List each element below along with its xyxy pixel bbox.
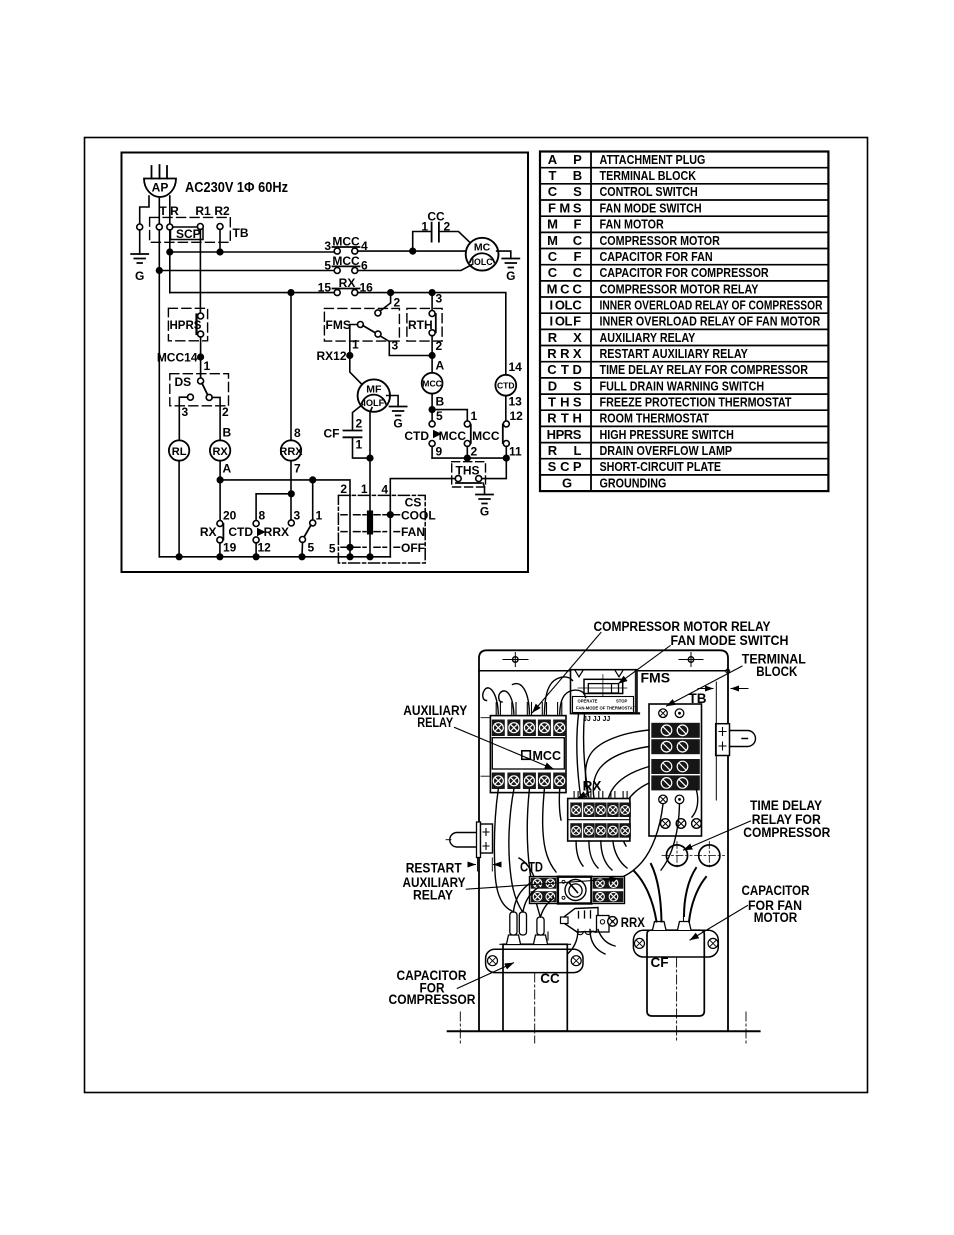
- legend row CONTROL SWITCH: [548, 184, 698, 199]
- legend row FAN MOTOR: [547, 217, 664, 232]
- wire RX to node A: [219, 461, 221, 480]
- fan mode switch FMS: [324, 293, 400, 353]
- svg-text:MF: MF: [366, 384, 382, 396]
- CC terminal posts: [507, 912, 549, 944]
- legend table: [540, 152, 828, 492]
- svg-text:TB: TB: [689, 691, 707, 706]
- svg-text:FMS: FMS: [641, 669, 671, 685]
- svg-text:G: G: [135, 269, 144, 283]
- svg-text:3: 3: [392, 339, 399, 353]
- wires below RRX: [565, 930, 615, 957]
- svg-text:ATTACHMENT PLUG: ATTACHMENT PLUG: [600, 152, 706, 167]
- room thermostat RTH: [407, 292, 443, 373]
- svg-text:13: 13: [509, 395, 523, 409]
- leader line fan mode switch: [619, 646, 671, 684]
- svg-text:G: G: [480, 505, 489, 519]
- time delay relay coil CTD: [495, 360, 523, 423]
- svg-text:MC: MC: [547, 233, 583, 248]
- svg-text:8: 8: [259, 509, 266, 523]
- legend row COMPRESSOR MOTOR: [547, 233, 720, 248]
- wire bottom bus: [159, 556, 390, 558]
- svg-text:2: 2: [436, 339, 443, 353]
- svg-text:3: 3: [182, 405, 189, 419]
- svg-text:COMPRESSOR MOTOR: COMPRESSOR MOTOR: [600, 233, 720, 248]
- leader line auxiliary relay: [455, 727, 554, 769]
- svg-text:RTH: RTH: [547, 411, 582, 426]
- svg-text:11: 11: [509, 445, 522, 459]
- svg-text:FULL DRAIN WARNING SWITCH: FULL DRAIN WARNING SWITCH: [600, 378, 765, 393]
- svg-text:FAN MODE SWITCH: FAN MODE SWITCH: [600, 200, 702, 215]
- legend row ATTACHMENT PLUG: [548, 152, 706, 167]
- svg-text:RELAY: RELAY: [417, 715, 453, 730]
- svg-text:COMPRESSOR: COMPRESSOR: [743, 825, 830, 840]
- svg-text:CC: CC: [548, 265, 583, 280]
- wire MCC6 to motor IOLC: [358, 265, 472, 271]
- svg-text:FAN-MODE OF THERMOSTAT: FAN-MODE OF THERMOSTAT: [576, 706, 635, 711]
- leader line restart auxiliary relay: [466, 879, 618, 889]
- svg-text:AP: AP: [548, 152, 582, 167]
- wire CS terminal 2 vertical: [349, 495, 351, 556]
- svg-text:MF: MF: [547, 217, 581, 232]
- label RESTART AUXILIARY RELAY: [403, 861, 466, 903]
- node R terminal: [167, 224, 173, 230]
- fan motor MF with inner overload IOLF: [358, 359, 445, 412]
- svg-text:TIME DELAY RELAY FOR COMPRESSO: TIME DELAY RELAY FOR COMPRESSOR: [600, 362, 809, 377]
- top right dimension marks: [698, 682, 748, 800]
- TB terminal rows: [651, 723, 700, 791]
- wire RX16 to CTD branch: [358, 293, 506, 375]
- svg-text:CF: CF: [651, 955, 669, 970]
- svg-text:MCC: MCC: [332, 235, 360, 249]
- leader line terminal block: [667, 666, 743, 706]
- svg-text:3: 3: [436, 292, 443, 306]
- wire R1 vertical down to HPRS: [199, 229, 201, 313]
- svg-text:CTD: CTD: [497, 381, 515, 391]
- legend row HIGH PRESSURE SWITCH: [547, 427, 734, 442]
- svg-text:MCC: MCC: [547, 281, 583, 296]
- auxiliary relay RX block: [568, 792, 631, 842]
- center marks dash-dot: [460, 958, 746, 1043]
- center line overlays: [535, 958, 677, 1030]
- svg-text:1: 1: [361, 482, 368, 496]
- label CAPACITOR FOR COMPRESSOR: [389, 968, 476, 1007]
- legend row FAN MODE SWITCH: [548, 200, 702, 215]
- svg-text:2: 2: [394, 296, 401, 310]
- wire bundle from TB to lower left: [585, 730, 697, 878]
- svg-text:FAN MODE SWITCH: FAN MODE SWITCH: [671, 633, 789, 648]
- svg-text:CC: CC: [427, 210, 445, 224]
- svg-text:G: G: [506, 269, 515, 283]
- contact RX 15-16: [318, 276, 374, 296]
- node R2 terminal: [217, 224, 223, 230]
- svg-text:R2: R2: [214, 204, 230, 218]
- svg-text:A: A: [436, 359, 445, 373]
- legend row ROOM THERMOSTAT: [547, 411, 709, 426]
- legend row AUXILIARY RELAY: [548, 330, 696, 345]
- wire plug ground lead: [140, 196, 149, 224]
- capacitor CF: [324, 405, 371, 459]
- svg-text:COMPRESSOR MOTOR RELAY: COMPRESSOR MOTOR RELAY: [594, 619, 771, 634]
- svg-text:RELAY: RELAY: [413, 888, 453, 903]
- high pressure switch HPRS: [168, 308, 207, 341]
- wire to MCC contact 5: [159, 270, 334, 272]
- node MCC14: [198, 354, 204, 360]
- svg-text:STOP: STOP: [616, 699, 628, 704]
- wire MCC4 to motor MC: [358, 250, 466, 252]
- svg-text:G: G: [393, 417, 402, 431]
- contact CTD 8-12: [228, 494, 291, 557]
- wire node B to contact MCC-1: [432, 410, 467, 422]
- auxiliary relay coil RX: [210, 440, 230, 460]
- svg-text:RTH: RTH: [408, 318, 433, 332]
- svg-text:5: 5: [329, 542, 336, 556]
- node R1 terminal: [197, 224, 203, 230]
- base line: [448, 1030, 760, 1032]
- wires from FMS unit down: [577, 714, 589, 798]
- label TIME DELAY RELAY FOR COMPRESSOR: [743, 798, 830, 840]
- svg-text:CS: CS: [548, 184, 582, 199]
- control box panel outline: [479, 650, 728, 1031]
- label TERMINAL BLOCK: [742, 652, 806, 679]
- legend row TIME DELAY RELAY FOR COMPRESSOR: [547, 362, 808, 377]
- svg-text:B: B: [436, 395, 445, 409]
- svg-text:INNER OVERLOAD RELAY OF COMPRE: INNER OVERLOAD RELAY OF COMPRESSOR: [600, 297, 823, 312]
- svg-text:5: 5: [324, 259, 331, 273]
- attachment plug AP: [144, 165, 176, 197]
- svg-text:MC: MC: [474, 242, 491, 254]
- svg-text:THS: THS: [548, 394, 582, 409]
- svg-text:OPERATE: OPERATE: [578, 699, 598, 704]
- wire node A horizontal: [220, 480, 350, 496]
- svg-text:1: 1: [316, 509, 323, 523]
- restart auxiliary relay coil RRX: [279, 293, 303, 523]
- wire HPRS to node MCC14: [200, 337, 202, 378]
- svg-text:TERMINAL BLOCK: TERMINAL BLOCK: [600, 168, 697, 183]
- cable connector on right edge: [716, 724, 756, 756]
- svg-text:CAPACITOR FOR FAN: CAPACITOR FOR FAN: [600, 249, 713, 264]
- svg-text:2: 2: [222, 405, 229, 419]
- svg-text:HIGH PRESSURE SWITCH: HIGH PRESSURE SWITCH: [600, 427, 734, 442]
- svg-text:COMPRESSOR MOTOR RELAY: COMPRESSOR MOTOR RELAY: [600, 281, 759, 296]
- svg-text:RX: RX: [200, 525, 217, 539]
- svg-text:BLOCK: BLOCK: [756, 664, 797, 679]
- terminal block TB: [649, 704, 702, 836]
- svg-text:G: G: [562, 475, 572, 490]
- wires below RX block: [576, 841, 627, 870]
- svg-text:HPRS: HPRS: [547, 427, 582, 442]
- svg-text:IOLF: IOLF: [363, 398, 384, 409]
- svg-text:ROOM THERMOSTAT: ROOM THERMOSTAT: [600, 411, 710, 426]
- contact CTD 5-9: [404, 409, 443, 459]
- wires above MCC block: [483, 677, 586, 714]
- ground G (left of TB): [131, 224, 148, 283]
- svg-text:AP: AP: [152, 181, 169, 195]
- ground G (fan motor): [387, 396, 407, 431]
- ground G (THS): [476, 483, 493, 519]
- svg-text:2: 2: [356, 417, 363, 431]
- svg-text:CF: CF: [548, 249, 582, 264]
- svg-text:1: 1: [356, 438, 363, 452]
- svg-text:2: 2: [444, 220, 451, 234]
- label AUXILIARY RELAY: [403, 703, 467, 730]
- legend row CAPACITOR FOR FAN: [548, 249, 713, 264]
- contact MCC 3-4: [324, 235, 368, 255]
- svg-text:9: 9: [436, 445, 443, 459]
- switch RRX 3-1-5: [264, 480, 323, 557]
- svg-text:CF: CF: [324, 427, 340, 441]
- svg-text:AC230V 1Φ 60Hz: AC230V 1Φ 60Hz: [185, 180, 288, 196]
- legend row COMPRESSOR MOTOR RELAY: [547, 281, 759, 296]
- legend row GROUNDING: [562, 475, 667, 490]
- leader line time delay relay: [684, 821, 751, 850]
- MCC terminal stems: [496, 703, 562, 716]
- wire R vertical down: [169, 230, 171, 293]
- contact MCC 12-11: [472, 421, 522, 459]
- svg-text:AUXILIARY RELAY: AUXILIARY RELAY: [600, 330, 696, 345]
- svg-text:T: T: [159, 204, 167, 218]
- svg-text:FMS: FMS: [548, 200, 582, 215]
- svg-text:RX: RX: [583, 779, 602, 794]
- svg-text:DS: DS: [548, 378, 582, 393]
- leader line RX: [578, 792, 591, 799]
- svg-text:MOTOR: MOTOR: [754, 910, 798, 925]
- wires above CF: [634, 864, 706, 922]
- svg-text:R1: R1: [195, 204, 211, 218]
- svg-text:CONTROL SWITCH: CONTROL SWITCH: [600, 184, 698, 199]
- panel screw left: [503, 653, 528, 667]
- svg-text:SCP: SCP: [176, 227, 201, 241]
- legend row DRAIN OVERFLOW LAMP: [548, 443, 733, 458]
- CF terminal posts: [653, 916, 692, 930]
- svg-text:JJ JJ JJ: JJ JJ JJ: [583, 716, 610, 723]
- svg-text:RRX: RRX: [547, 346, 582, 361]
- svg-text:RL: RL: [548, 443, 582, 458]
- left cable connector: [446, 718, 498, 871]
- leader line capacitor for compressor: [457, 963, 513, 989]
- svg-text:5: 5: [308, 541, 315, 555]
- MCC block top terminals: [492, 720, 566, 737]
- svg-text:CTD: CTD: [547, 362, 582, 377]
- svg-text:RX: RX: [339, 276, 356, 290]
- svg-text:12: 12: [510, 409, 524, 423]
- svg-text:COOL: COOL: [401, 508, 436, 522]
- wires from MCC block down to CC: [494, 789, 561, 916]
- legend row TERMINAL BLOCK: [549, 168, 697, 183]
- compressor motor relay coil MCC: [422, 373, 445, 421]
- svg-text:8: 8: [294, 426, 301, 440]
- freeze protection thermostat THS: [452, 458, 507, 487]
- svg-text:MCC: MCC: [439, 429, 467, 443]
- wires above CC: [513, 882, 554, 917]
- svg-text:1: 1: [471, 409, 478, 423]
- svg-text:RESTART: RESTART: [406, 861, 463, 876]
- full drain warning switch DS: [170, 374, 229, 419]
- svg-text:19: 19: [223, 541, 237, 555]
- svg-text:FMS: FMS: [326, 318, 351, 332]
- svg-text:3: 3: [324, 239, 331, 253]
- wire plug R lead: [169, 196, 171, 224]
- svg-text:FAN MOTOR: FAN MOTOR: [600, 217, 664, 232]
- svg-text:15: 15: [318, 281, 332, 295]
- svg-text:FREEZE PROTECTION THERMOSTAT: FREEZE PROTECTION THERMOSTAT: [600, 394, 792, 409]
- svg-text:TB: TB: [549, 168, 583, 183]
- capacitor CC body: [486, 944, 583, 1031]
- svg-text:MCC14: MCC14: [157, 351, 198, 365]
- legend row FREEZE PROTECTION THERMOSTAT: [548, 394, 792, 409]
- wire R2 vertical stub: [219, 229, 221, 252]
- svg-text:RESTART AUXILIARY RELAY: RESTART AUXILIARY RELAY: [600, 346, 749, 361]
- svg-text:CTD: CTD: [404, 429, 429, 443]
- control switch CS box: [329, 482, 425, 563]
- svg-text:GROUNDING: GROUNDING: [600, 475, 667, 490]
- svg-text:RX: RX: [548, 330, 582, 345]
- svg-text:RL: RL: [172, 446, 187, 458]
- wire FMS common to node RX12: [350, 325, 364, 387]
- wire to RX contact 15: [170, 292, 335, 294]
- ground G (motor MC): [497, 251, 520, 283]
- svg-text:2: 2: [471, 445, 478, 459]
- contact MCC 5-6: [324, 254, 368, 274]
- restart auxiliary relay RRX unit: [561, 908, 618, 935]
- legend row SHORT-CIRCUIT PLATE: [548, 459, 722, 474]
- wire to MCC contact 3: [170, 251, 335, 253]
- leader line compressor motor relay: [533, 633, 601, 713]
- svg-text:4: 4: [381, 483, 388, 497]
- svg-text:FAN: FAN: [401, 525, 425, 539]
- svg-text:INNER OVERLOAD RELAY OF FAN MO: INNER OVERLOAD RELAY OF FAN MOTOR: [600, 314, 821, 329]
- svg-text:IOLF: IOLF: [549, 314, 581, 329]
- fan mode switch unit FMS: [571, 670, 640, 723]
- legend row RESTART AUXILIARY RELAY: [547, 346, 748, 361]
- MCC nameplate label: [522, 749, 561, 763]
- legend row INNER OVERLOAD RELAY OF FAN MOTOR: [549, 314, 820, 329]
- wire FMS-3 to node 2: [380, 336, 432, 356]
- svg-text:RRX: RRX: [621, 915, 645, 930]
- svg-text:SHORT-CIRCUIT PLATE: SHORT-CIRCUIT PLATE: [600, 459, 722, 474]
- contact RX 20-19: [200, 480, 237, 557]
- svg-text:OFF: OFF: [401, 541, 425, 555]
- CS row COOL: [341, 508, 436, 522]
- svg-text:CTD: CTD: [520, 860, 543, 875]
- MCC block bottom terminals: [492, 773, 566, 790]
- label CAPACITOR FOR FAN MOTOR: [742, 883, 810, 925]
- legend row INNER OVERLOAD RELAY OF COMPRESSOR: [549, 297, 822, 312]
- node T terminal: [156, 224, 162, 230]
- TB bottom screws: [659, 795, 684, 804]
- svg-text:1: 1: [204, 359, 211, 373]
- screw terminals below TB: [661, 819, 702, 829]
- svg-text:5: 5: [436, 409, 443, 423]
- svg-text:1: 1: [421, 220, 428, 234]
- panel holes: [662, 842, 725, 870]
- svg-text:A: A: [223, 462, 232, 476]
- motor MC with inner overload IOLC: [466, 238, 499, 271]
- terminal block TB dashed box: [150, 217, 231, 242]
- svg-text:DS: DS: [175, 375, 192, 389]
- wire CS terminal 1 vertical with wiper: [367, 511, 373, 557]
- wire DS-2 to relay RX: [212, 397, 220, 440]
- drain overflow lamp RL: [169, 440, 189, 460]
- svg-text:COMPRESSOR: COMPRESSOR: [389, 992, 476, 1007]
- svg-text:RX: RX: [212, 446, 228, 458]
- svg-text:TB: TB: [233, 226, 249, 240]
- leader line capacitor for fan motor: [690, 906, 748, 941]
- svg-text:CC: CC: [540, 971, 560, 986]
- svg-text:CTD: CTD: [228, 525, 253, 539]
- svg-text:RRX: RRX: [264, 525, 289, 539]
- svg-text:B: B: [223, 426, 232, 440]
- wire RL to bottom bus: [178, 461, 180, 557]
- wire DS-3 to lamp RL: [179, 397, 187, 440]
- capacitor CF body: [633, 930, 718, 1016]
- capacitor CC: [413, 210, 470, 252]
- svg-text:20: 20: [223, 509, 237, 523]
- svg-text:IOLC: IOLC: [472, 257, 493, 268]
- svg-text:CAPACITOR: CAPACITOR: [742, 883, 810, 898]
- legend row CAPACITOR FOR COMPRESSOR: [548, 265, 769, 280]
- svg-text:12: 12: [258, 541, 272, 555]
- svg-text:RX12: RX12: [316, 349, 346, 363]
- MCC relay block: [490, 716, 566, 793]
- svg-text:MCC: MCC: [472, 429, 500, 443]
- svg-text:MCC: MCC: [332, 254, 360, 268]
- svg-text:7: 7: [294, 462, 301, 476]
- wire T vertical to bottom bus: [158, 230, 160, 557]
- svg-text:1: 1: [352, 338, 359, 352]
- wire plug T lead: [158, 198, 160, 225]
- svg-text:TIME DELAY: TIME DELAY: [750, 798, 822, 813]
- svg-text:R: R: [170, 204, 179, 218]
- wire THS to control switch terminal 4: [390, 479, 455, 557]
- svg-text:IOLC: IOLC: [549, 297, 582, 312]
- svg-text:SCP: SCP: [548, 459, 582, 474]
- svg-text:MCC: MCC: [422, 379, 442, 389]
- wire lower bus of contacts: [432, 457, 506, 459]
- svg-text:RRX: RRX: [279, 446, 303, 458]
- CS row FAN: [341, 525, 425, 539]
- svg-text:2: 2: [340, 482, 347, 496]
- contact MCC 1-2: [439, 409, 478, 459]
- panel screw right: [679, 653, 703, 667]
- svg-text:3: 3: [294, 509, 301, 523]
- wire MF to control switch terminal 1: [370, 408, 372, 511]
- svg-text:CAPACITOR FOR COMPRESSOR: CAPACITOR FOR COMPRESSOR: [600, 265, 769, 280]
- short-circuit plate SCP: [171, 227, 204, 241]
- time delay relay CTD unit: [519, 858, 625, 904]
- svg-text:14: 14: [509, 360, 523, 374]
- legend row FULL DRAIN WARNING SWITCH: [548, 378, 764, 393]
- CS row OFF: [341, 541, 425, 555]
- svg-text:DRAIN OVERFLOW LAMP: DRAIN OVERFLOW LAMP: [600, 443, 733, 458]
- svg-text:MCC: MCC: [533, 749, 561, 763]
